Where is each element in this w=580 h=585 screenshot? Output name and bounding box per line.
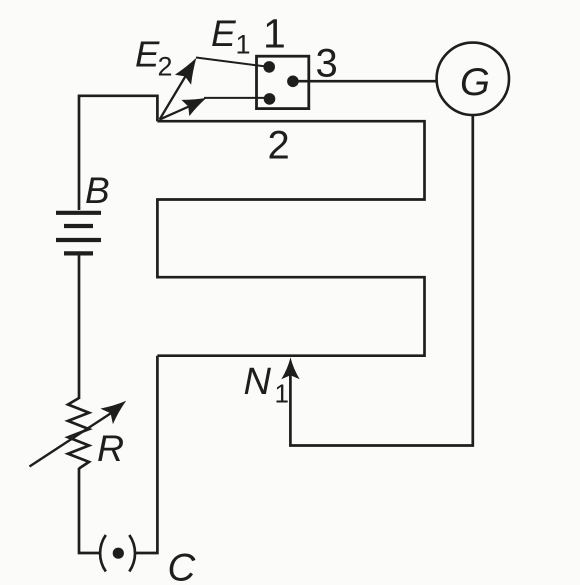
lead: arrow tip to terminal 1 (196, 58, 269, 67)
svg-text:R: R (97, 427, 124, 469)
svg-text:C: C (168, 547, 197, 585)
svg-text:B: B (85, 170, 110, 211)
svg-text:E: E (211, 13, 237, 54)
svg-text:3: 3 (316, 41, 338, 85)
selector arm arrow to terminal 1 (cell E1) (160, 75, 187, 120)
lead: arrow tip to terminal 2 (204, 97, 270, 99)
wire: rheostat to key C (79, 468, 100, 553)
terminal 2 (264, 93, 276, 105)
terminal 1 (263, 61, 275, 73)
rheostat arrow (30, 413, 113, 467)
terminal 3 (287, 76, 299, 88)
svg-text:N: N (244, 361, 272, 403)
galvanometer G (437, 43, 509, 115)
svg-text:2: 2 (158, 51, 173, 81)
plug key C (100, 535, 106, 572)
wire: terminal 3 to galvanometer (293, 80, 438, 83)
wire: battery positive to top-left corner and step to junction (79, 96, 157, 210)
selector arm arrow to terminal 2 (cell E2) (160, 106, 191, 120)
wire: battery to rheostat (78, 255, 81, 399)
wire: key C to potentiometer end A (135, 356, 157, 553)
battery B (56, 213, 101, 254)
potentiometer serpentine wire (157, 121, 424, 356)
svg-text:G: G (460, 61, 490, 104)
rheostat R (68, 398, 89, 469)
svg-text:E: E (135, 33, 160, 74)
jockey N1 arrow (281, 357, 299, 379)
svg-text:2: 2 (268, 124, 290, 168)
wire: galvanometer to jockey (290, 114, 472, 446)
svg-text:1: 1 (236, 29, 251, 59)
selector switch box (257, 56, 309, 108)
svg-text:1: 1 (263, 11, 286, 57)
svg-text:1: 1 (275, 379, 289, 409)
